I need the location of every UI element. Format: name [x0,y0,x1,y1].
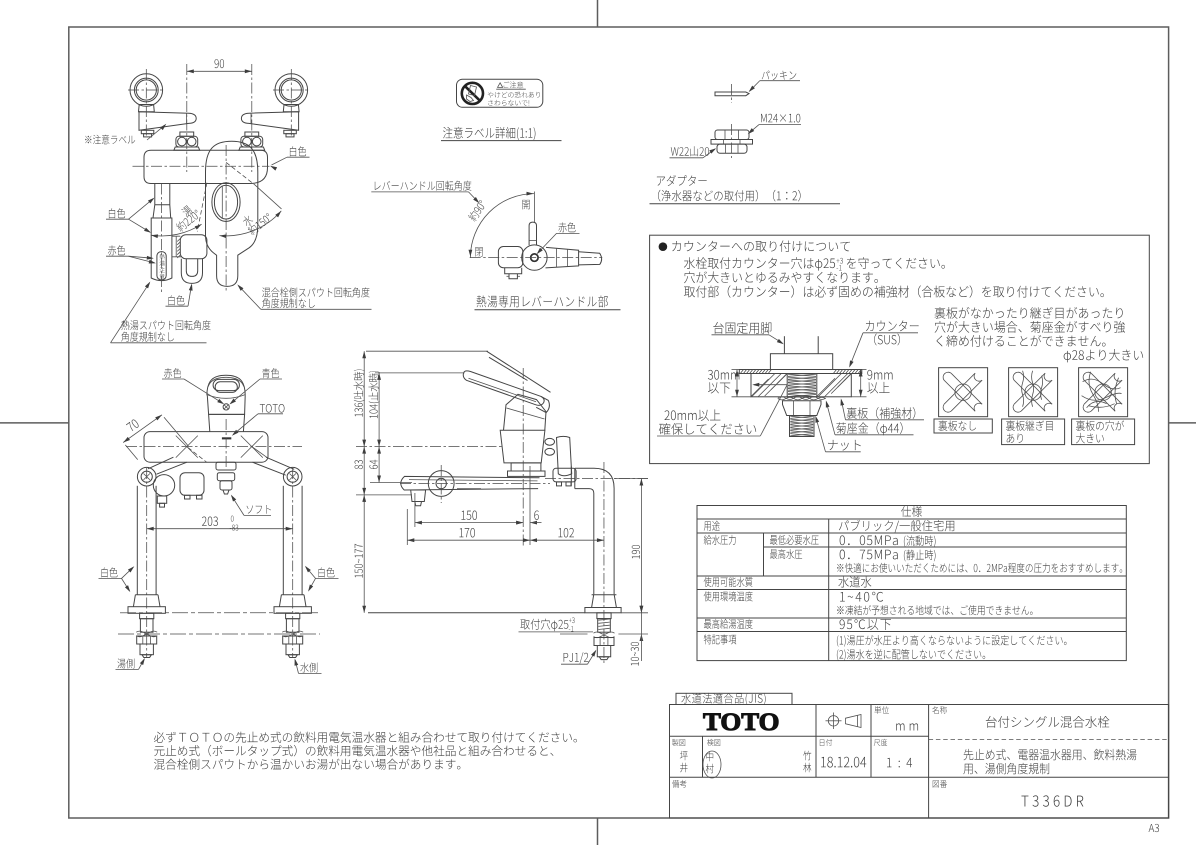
FV1 left seat [180,132,194,136]
FV1 handle arm [139,112,196,131]
SV hot lever [557,436,572,475]
SV open handle blade [487,351,551,392]
SV counter lines [368,612,585,614]
warning label texts [498,83,503,88]
SV closed handle blade [463,371,544,405]
FV1 label mixing spout rotation [261,308,372,310]
AD M24 label [759,124,801,126]
CS label dai kotei [712,334,770,336]
SV chains [522,368,524,546]
FV2 yu-gawa mizu-gawa [116,668,139,670]
FV2 legs [136,486,138,595]
CS label 20mm [657,435,760,437]
bullet [659,242,668,251]
FV2 valve under ball [157,496,166,503]
FV1 spout oval opening [212,183,240,222]
kenzu [703,751,721,778]
title block outer [670,705,1169,819]
SV neck [511,463,541,471]
LH left spout connection [498,247,522,268]
caption chuui label shousai [441,140,562,142]
CS label kiku washer [835,434,914,436]
LH post open position [529,222,536,245]
CS kiku washer [778,397,826,400]
FV2 aerator stack [216,462,236,470]
center tick left [0,422,69,424]
SV spout arm [401,476,540,490]
FV1 handle arm [241,112,298,131]
FV2 cap opening [213,379,239,390]
FV1 hot spout U outlet [181,259,202,284]
FV2 handle body [207,395,245,414]
title block lines [670,735,929,737]
FV1 label hot spout rotation [111,342,207,344]
SV blade tip fold [536,396,549,412]
FV1 dim 90 [187,70,252,72]
SV top extension lines [366,350,488,352]
SV dim 150 and 6 [415,522,523,524]
FV1 handle stem right [283,105,299,112]
CS counter strip [739,370,862,374]
JIS label box [676,693,792,704]
FV2 pivots [137,467,156,486]
SV aerator [411,490,426,502]
warning label box [457,79,543,107]
CS label backing board [846,419,925,421]
LH hub circle [522,245,547,270]
xbox labels [934,419,992,433]
projection symbol [828,716,838,726]
SV lever hub [504,394,547,430]
CS label nut [826,451,861,453]
FV1 warning strip [157,252,166,280]
FV1 handle lower nib [141,130,154,133]
SV hot spout piece [553,468,576,482]
CS legs above base [783,336,785,354]
AD packing label [750,81,760,91]
prohibition circle [462,83,483,104]
CS faucet base [770,354,832,370]
FV1 body [144,150,268,183]
xbox seam [1009,368,1058,417]
CS bolt with thread [787,374,817,397]
SV dim 170 and 102 [407,539,530,541]
SV elbow pipe [575,468,614,594]
AD W22 label [670,157,704,159]
FV1 label white right [287,156,310,158]
FV1 bracket to hot spout [172,236,181,257]
SV dim 136 [363,351,365,446]
FV2 dim 203 [147,528,293,530]
center tick bottom [597,818,599,845]
SV dim 104 [378,373,380,447]
spec table outer [697,506,1126,661]
SV dim 83 [363,447,365,495]
FV1 hot unit cylinder [151,218,172,281]
prohibition slash [465,86,480,101]
FV2 counter chain lines [120,612,318,614]
FV2 ball joint [153,475,174,496]
SV below counter parts [597,613,611,619]
FV1 label red [106,255,129,257]
SV dim 10-30 [640,606,644,613]
FV1 handle lower nib [284,130,297,133]
FV1 handle stem left [139,105,155,112]
counter info box [650,235,1150,463]
LH vertical extension [533,192,535,223]
AD packing [715,92,749,96]
FV1 label chuui [147,125,165,140]
LH 90 deg arc [470,194,534,258]
SV cartridge body [500,430,545,463]
FV1 right handle ring [275,74,308,107]
FV2 blue label [260,378,282,380]
FV2 indicator dot [223,404,229,410]
FV2 red label [162,378,184,380]
AD packing centerline [731,84,733,103]
LH leader rotation label [371,191,468,193]
FV1 label white left [106,218,129,220]
FV2 right arm [266,457,294,469]
SV dim 64 [378,447,380,483]
FV2 body bar [144,432,268,463]
SV pipe base cone [592,594,617,607]
LH chain line [470,257,603,259]
FV2 X marks [176,436,198,458]
hand pictogram [469,86,477,96]
FV1 centerlines [145,69,147,136]
FV1 hot spout body [180,235,207,259]
FV1 left handle ring [130,74,163,107]
SV PJ label [561,663,588,665]
CS backing board [751,374,851,397]
FV2 dim 70 diagonal [123,415,162,443]
AD caption [650,203,841,205]
FV2 handle cap [207,375,245,395]
LH lever arm [546,247,579,268]
FV2 centerlines [225,419,227,470]
xbox no backing [939,368,988,417]
CS dim 30mm [736,370,738,397]
SV dim 190 [615,478,649,480]
AD adapter body [715,130,749,140]
LH caption [475,309,621,311]
spec table v-lines [763,533,765,576]
spec table h-lines [697,518,1126,520]
FV2 TOTO label [258,413,283,415]
FV1 hot unit neck [153,184,171,219]
svg-text:TOTO: TOTO [703,707,780,736]
FV2 hot spout body [180,473,204,496]
center tick top [597,0,599,27]
SV toritsuke ana label [519,631,594,633]
FV2 soft label [244,514,271,516]
FV2 white labels legs [99,577,122,579]
CS pipe below [790,416,815,437]
CS label counter SUS [863,332,918,334]
center tick right [1169,422,1196,424]
LH red label [557,232,580,234]
FV2 left arm [148,457,173,469]
SV boss on spout [428,471,454,497]
xbox big hole [1079,368,1128,417]
FV1 spout dome with tube [206,141,258,286]
SV dim 150-177 [363,495,365,613]
CS nut [783,401,822,416]
CS dim 9mm [860,370,862,397]
FV1 hatch strip [177,239,180,259]
FV1 label white bottom [166,305,189,307]
FV1 rotation arcs [226,162,254,184]
